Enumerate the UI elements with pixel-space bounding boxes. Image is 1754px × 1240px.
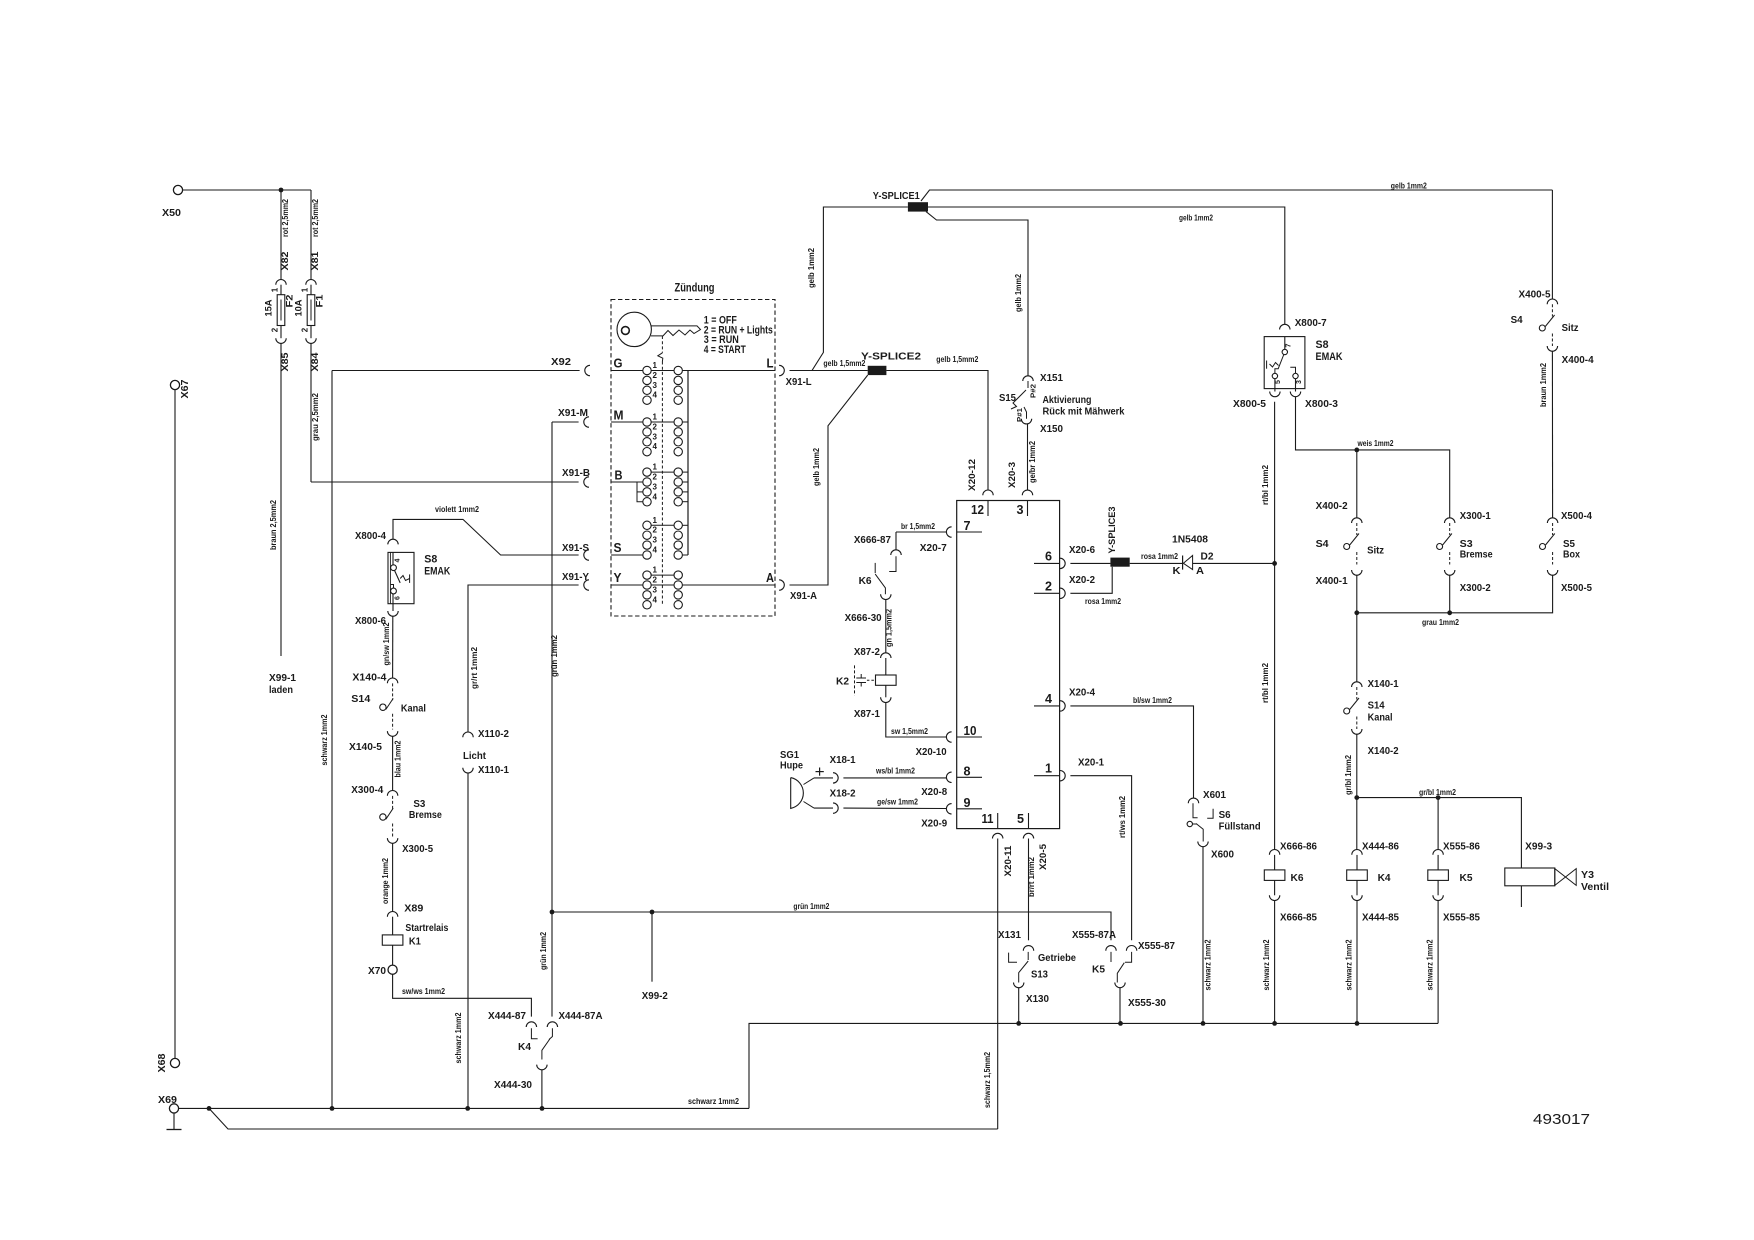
- label X91-S: [562, 543, 589, 554]
- wire splice3 to diode: [1130, 562, 1183, 564]
- label terminal G: [614, 356, 623, 371]
- label EMAK (right): [1316, 351, 1343, 363]
- wire splice2 to X91-A: [790, 375, 868, 585]
- K4 contact bracket right: [549, 1028, 552, 1039]
- svg-text:grau 2,5mm2: grau 2,5mm2: [311, 392, 320, 441]
- connector X500-5: [1547, 570, 1557, 575]
- X20 pin 4 stub: [1034, 691, 1060, 706]
- wire X140-5 to X300-4 (blau): [392, 736, 394, 790]
- ignition key head: [617, 312, 651, 346]
- wire fuse F2 branch upper: [280, 190, 282, 280]
- S8 right pin 5: [1272, 373, 1282, 384]
- svg-text:1N5408: 1N5408: [1172, 535, 1208, 546]
- wire ignition row S: [611, 554, 647, 556]
- ignition key hole: [622, 327, 630, 335]
- label schwarz 1mm2 (Licht drop): [454, 1012, 463, 1063]
- S6 contact bracket: [1207, 809, 1213, 818]
- svg-text:X800-7: X800-7: [1295, 318, 1327, 329]
- label 1N5408: [1172, 535, 1208, 546]
- connector X800-7: [1280, 324, 1290, 329]
- connector X131: [1023, 946, 1033, 951]
- horn SG1: [791, 778, 814, 809]
- svg-text:Y: Y: [614, 570, 622, 585]
- label terminal L: [767, 356, 774, 371]
- wire grau to X140-1: [1356, 613, 1358, 682]
- wire X444-85 to relay bus: [1356, 901, 1358, 1024]
- connector X555-30: [1115, 983, 1125, 988]
- wire X800-5 to K6 coil (rt/bl): [1274, 402, 1276, 850]
- label legend 4=START: [704, 344, 746, 356]
- label Fuellstand: [1219, 822, 1261, 833]
- wire X82 to F2: [280, 285, 282, 295]
- connector X555-86: [1433, 849, 1443, 854]
- svg-text:4: 4: [653, 391, 658, 400]
- svg-text:Rück mit Mähwerk: Rück mit Mähwerk: [1043, 407, 1125, 418]
- label X91-B: [562, 468, 590, 479]
- relay coil K5: [1428, 870, 1449, 881]
- svg-text:X18-2: X18-2: [830, 789, 856, 800]
- label schwarz 1mm2 (K4 coil drop): [1345, 939, 1354, 990]
- connector X20-3: [1022, 490, 1032, 495]
- label schwarz 1mm2 (S6 drop): [1204, 939, 1213, 990]
- wire X91-L to splice2: [790, 370, 868, 372]
- svg-text:X91-L: X91-L: [786, 377, 812, 388]
- label gelb 1mm2 (to S8): [1179, 214, 1213, 223]
- connector X89: [387, 912, 397, 917]
- label X444-87A: [559, 1011, 603, 1022]
- label weis 1mm2: [1357, 439, 1394, 448]
- label X444-87: [488, 1011, 526, 1022]
- switch S8 EMAK (right) box: [1264, 337, 1305, 389]
- svg-text:X91-S: X91-S: [562, 543, 589, 554]
- svg-text:3: 3: [653, 381, 658, 390]
- wire X20-1 to X555-87 (rt/ws): [1070, 776, 1131, 941]
- svg-text:X400-4: X400-4: [1562, 355, 1594, 366]
- relay coil K2: [876, 675, 897, 685]
- svg-text:9: 9: [964, 795, 971, 810]
- svg-text:3: 3: [653, 536, 658, 545]
- wire X91-Y to Licht: [468, 585, 579, 732]
- label Startrelais: [405, 923, 448, 934]
- connector X110-2: [463, 732, 473, 737]
- label rosa 1mm2 (lower): [1085, 597, 1121, 606]
- label sw/ws 1mm2: [402, 987, 445, 996]
- label S15 pin P#1: [1017, 408, 1024, 422]
- label Zuendung: [675, 281, 715, 295]
- label S15: [999, 393, 1016, 404]
- switch S3 Bremse stub lower: [392, 824, 394, 839]
- label schwarz 1mm2 (X92 drop): [320, 714, 329, 765]
- switch S3 Bremse: [380, 808, 394, 820]
- wire K4 coil to X444-85: [1356, 880, 1358, 895]
- label connector X84: [310, 353, 320, 372]
- svg-text:S6: S6: [1219, 810, 1231, 821]
- label terminal S: [614, 540, 622, 555]
- label X666-86: [1280, 842, 1317, 853]
- label S6: [1219, 810, 1231, 821]
- connector X91-M: [584, 417, 589, 427]
- svg-text:4: 4: [395, 558, 402, 562]
- wire X400-1 to grau: [1356, 575, 1358, 613]
- junction on X50 feed: [279, 188, 284, 193]
- wire splice1 top output: [921, 190, 1552, 201]
- junction relay bus K4 coil: [1355, 1021, 1360, 1026]
- svg-text:A: A: [766, 570, 775, 585]
- label grau 2,5mm2: [311, 392, 320, 441]
- svg-text:S5: S5: [1563, 539, 1575, 550]
- svg-text:S14: S14: [1368, 701, 1385, 712]
- connector X800-6: [388, 611, 398, 616]
- junction grau S3: [1447, 610, 1452, 615]
- svg-text:X140-5: X140-5: [349, 742, 382, 753]
- X20 pin 6 stub: [1034, 548, 1060, 563]
- wire gelb to X400-5: [1551, 190, 1553, 299]
- svg-text:5: 5: [1275, 380, 1282, 384]
- X20 pin 9 stub: [957, 795, 982, 810]
- K2 suppressor: [855, 665, 876, 695]
- label X500-4: [1561, 511, 1592, 522]
- wire gr/bl bus: [1357, 798, 1522, 868]
- S8 right pin 7 lead: [1284, 337, 1286, 350]
- label X300-1: [1460, 511, 1491, 522]
- svg-text:schwarz 1mm2: schwarz 1mm2: [454, 1012, 463, 1063]
- wire X666-87 to X20-7: [896, 531, 946, 533]
- svg-text:schwarz 1mm2: schwarz 1mm2: [1204, 939, 1213, 990]
- X20 pin 10 stub: [957, 723, 982, 738]
- label Aktivierung: [1043, 395, 1092, 406]
- label S13: [1031, 970, 1048, 981]
- wire X666-86 to K6 coil: [1274, 855, 1276, 870]
- svg-text:4: 4: [653, 442, 658, 451]
- svg-text:K4: K4: [1378, 873, 1391, 884]
- svg-text:X500-4: X500-4: [1561, 511, 1592, 522]
- svg-text:X500-5: X500-5: [1561, 583, 1592, 594]
- S8 left pin 6 stub: [391, 585, 394, 589]
- label violett 1mm2: [435, 505, 479, 514]
- wire K6 coil to X666-85: [1274, 880, 1276, 895]
- svg-text:P#2: P#2: [1031, 384, 1038, 398]
- wire X50 feed: [183, 189, 311, 191]
- svg-text:G: G: [614, 356, 623, 371]
- svg-text:1: 1: [653, 361, 658, 370]
- S8 left pin 4 lead: [392, 552, 394, 564]
- label gruen 1mm2 (upper): [550, 634, 559, 677]
- wire splice1 to S15: [926, 212, 1028, 376]
- S8 right pin 3: [1293, 373, 1303, 384]
- label F1 pin 2: [301, 327, 310, 332]
- junction gruen left: [550, 910, 555, 915]
- wire X444-30 to bus1: [541, 1070, 543, 1109]
- svg-text:Sitz: Sitz: [1562, 323, 1579, 334]
- wire X87-2 to K2: [885, 658, 887, 675]
- svg-text:X87-1: X87-1: [854, 709, 880, 720]
- label legend 1=OFF: [704, 315, 737, 327]
- label Sitz (top): [1562, 323, 1579, 334]
- wire ignition row B: [611, 481, 647, 483]
- svg-text:11: 11: [982, 811, 994, 826]
- wire ground bus 1: [179, 1107, 749, 1109]
- label SG1: [780, 750, 799, 761]
- label X130: [1026, 994, 1049, 1005]
- svg-text:rt/bl 1mm2: rt/bl 1mm2: [1261, 464, 1270, 505]
- label Hupe: [780, 761, 803, 772]
- label S5: [1563, 539, 1575, 550]
- svg-text:rot 2,5mm2: rot 2,5mm2: [281, 199, 290, 237]
- wire X300-2 to grau: [1449, 575, 1451, 613]
- svg-text:2: 2: [1045, 578, 1052, 593]
- switch K4: [542, 1039, 550, 1060]
- label rt/bl 1mm2 (upper): [1261, 464, 1270, 505]
- S8 left pin 4: [391, 558, 402, 570]
- ignition bus stub B3: [678, 491, 688, 493]
- svg-text:X666-30: X666-30: [845, 613, 882, 624]
- connector X81: [306, 279, 316, 284]
- S8 right pin 7: [1282, 343, 1292, 354]
- svg-text:gr/bl 1mm2: gr/bl 1mm2: [1344, 754, 1353, 795]
- svg-text:X99-1: X99-1: [269, 673, 296, 684]
- label X20-7: [920, 543, 947, 554]
- connector X601: [1188, 798, 1198, 803]
- label connector X85: [280, 353, 290, 372]
- svg-text:br/rt 1mm2: br/rt 1mm2: [1027, 856, 1036, 897]
- label S15 pin P#2: [1031, 384, 1038, 398]
- label X140-4: [352, 672, 386, 683]
- label Rueck mit Maehwerk: [1043, 407, 1125, 418]
- svg-text:gn/sw 1mm2: gn/sw 1mm2: [382, 622, 391, 665]
- label X20-1: [1078, 758, 1104, 769]
- wire X555-85 to relay bus: [1437, 901, 1439, 1024]
- svg-text:X99-3: X99-3: [1525, 842, 1552, 853]
- label ge/sw 1mm2: [877, 798, 918, 807]
- wire X444-86 to K4 coil: [1356, 855, 1358, 870]
- label X300-2: [1460, 583, 1491, 594]
- label sw 1,5mm2: [891, 727, 928, 736]
- wire X18-2 to X20-9 (ge/sw): [843, 807, 946, 809]
- connector X151: [1023, 376, 1033, 381]
- wire X99-2 stub: [651, 912, 653, 982]
- junction bus1-bus2: [207, 1106, 212, 1111]
- svg-text:1: 1: [301, 287, 310, 292]
- connector X150: [1021, 419, 1031, 424]
- switch S5: [1540, 534, 1555, 550]
- label D2: [1201, 552, 1214, 563]
- S4 top stub upper: [1551, 304, 1553, 316]
- label Ventil: [1581, 882, 1609, 893]
- connector X400-1: [1352, 570, 1362, 575]
- svg-text:X444-85: X444-85: [1362, 913, 1399, 924]
- connector X18-2: [833, 803, 838, 813]
- svg-text:Sitz: Sitz: [1367, 546, 1384, 557]
- label X20-11: [1003, 846, 1013, 877]
- label X666-85: [1280, 913, 1317, 924]
- switch S3 (right): [1437, 534, 1452, 550]
- connector X400-2: [1352, 518, 1362, 523]
- S13 contact stub: [1027, 952, 1029, 960]
- svg-text:gelb 1mm2: gelb 1mm2: [807, 247, 816, 288]
- junction diode rt/bl: [1272, 561, 1277, 566]
- svg-text:6: 6: [395, 596, 402, 600]
- label S3 (left): [413, 799, 425, 810]
- svg-text:X555-30: X555-30: [1128, 998, 1166, 1009]
- junction relay bus K5 contact: [1118, 1021, 1123, 1026]
- label X555-87: [1138, 941, 1175, 952]
- wire X20-6 to splice3: [1070, 562, 1110, 564]
- svg-text:X444-86: X444-86: [1362, 842, 1399, 853]
- svg-text:violett 1mm2: violett 1mm2: [435, 505, 479, 514]
- svg-text:rt/ws 1mm2: rt/ws 1mm2: [1118, 795, 1127, 838]
- switch S13: [1019, 961, 1028, 983]
- connector X82: [276, 279, 286, 284]
- svg-text:ge/sw 1mm2: ge/sw 1mm2: [877, 798, 918, 807]
- svg-text:S4: S4: [1511, 315, 1523, 326]
- S4 top stub lower: [1551, 334, 1553, 347]
- junction relay bus S6: [1201, 1021, 1206, 1026]
- junction gruen X99-2: [650, 910, 655, 915]
- terminal X70: [368, 965, 397, 977]
- svg-text:7: 7: [964, 518, 971, 533]
- connector X110-1: [463, 768, 473, 773]
- label Bremse (right): [1460, 550, 1493, 561]
- fuse F1 10A: [307, 295, 315, 326]
- svg-text:493017: 493017: [1533, 1111, 1590, 1128]
- relay coil K4: [1347, 870, 1368, 881]
- svg-text:X91-M: X91-M: [558, 408, 588, 419]
- connector X20-2: [1060, 588, 1065, 598]
- switch S4 (middle): [1344, 534, 1359, 550]
- svg-text:EMAK: EMAK: [1316, 351, 1343, 363]
- svg-text:X150: X150: [1040, 424, 1063, 435]
- svg-text:4: 4: [653, 492, 658, 501]
- svg-text:schwarz 1mm2: schwarz 1mm2: [1345, 939, 1354, 990]
- svg-text:12: 12: [971, 502, 984, 517]
- svg-text:F1: F1: [315, 295, 325, 308]
- svg-text:ws/bl 1mm2: ws/bl 1mm2: [875, 767, 915, 776]
- S8 right pin5 lead: [1274, 379, 1276, 392]
- svg-text:K5: K5: [1460, 873, 1473, 884]
- connector X400-4: [1547, 346, 1557, 351]
- svg-text:X400-1: X400-1: [1316, 576, 1348, 587]
- svg-text:braun 1mm2: braun 1mm2: [1539, 362, 1548, 407]
- svg-text:X68: X68: [157, 1053, 168, 1072]
- junction bus1 X92 ground: [330, 1106, 335, 1111]
- svg-text:X444-87: X444-87: [488, 1011, 526, 1022]
- wire X91-B: [311, 481, 579, 483]
- svg-text:X20-3: X20-3: [1007, 462, 1017, 488]
- wire X400-4 to X500-4 (braun): [1551, 351, 1553, 518]
- connector X666-87: [891, 550, 901, 555]
- svg-text:bl/sw 1mm2: bl/sw 1mm2: [1133, 696, 1172, 705]
- svg-text:X151: X151: [1040, 373, 1063, 384]
- connector X600: [1198, 842, 1208, 847]
- ignition contact circles: [643, 361, 683, 609]
- svg-text:grau 1mm2: grau 1mm2: [1422, 618, 1459, 627]
- svg-text:10A: 10A: [294, 299, 304, 317]
- svg-text:4: 4: [1045, 691, 1053, 706]
- svg-text:X82: X82: [280, 252, 290, 271]
- svg-text:schwarz 1,5mm2: schwarz 1,5mm2: [983, 1052, 992, 1108]
- svg-text:2: 2: [271, 327, 280, 332]
- svg-text:braun 2,5mm2: braun 2,5mm2: [269, 499, 278, 550]
- wire X666-85 to relay bus: [1274, 901, 1276, 1024]
- label Y-SPLICE2: [861, 352, 921, 363]
- label X400-1: [1316, 576, 1348, 587]
- wire X800-3 weis net: [1296, 397, 1450, 518]
- label X99-2: [642, 991, 668, 1002]
- S8 left pin 6 lead: [392, 594, 394, 611]
- svg-text:3: 3: [653, 585, 658, 594]
- terminal X69: [158, 1095, 179, 1113]
- connector X20-10: [946, 732, 951, 742]
- label gn/sw 1mm2 (S14 feed): [382, 622, 391, 665]
- label K6 (coil): [1291, 873, 1304, 884]
- label Sitz (middle): [1367, 546, 1384, 557]
- wire gruen X91-M drop: [551, 422, 553, 912]
- wire X85 down (braun): [280, 343, 282, 656]
- switch S14 Kanal stub lower: [392, 714, 394, 730]
- svg-text:S13: S13: [1031, 970, 1048, 981]
- label br 1,5mm2: [901, 522, 935, 531]
- svg-text:X444-30: X444-30: [494, 1080, 532, 1091]
- label terminal M: [614, 408, 624, 423]
- S4 middle stub lower: [1356, 552, 1358, 565]
- svg-text:K6: K6: [1291, 873, 1304, 884]
- svg-text:X666-86: X666-86: [1280, 842, 1317, 853]
- label X601: [1203, 790, 1226, 801]
- diode D2: [1183, 556, 1193, 570]
- svg-text:S14: S14: [351, 694, 370, 705]
- label F2 pin 2: [271, 327, 280, 332]
- svg-text:D2: D2: [1201, 552, 1214, 563]
- connector X300-4: [387, 791, 397, 796]
- relay coil K1: [382, 935, 403, 945]
- horn plus sign: [816, 768, 824, 776]
- S8 right pin3 lead: [1295, 379, 1297, 392]
- ignition bus stub S4: [678, 554, 688, 556]
- label schwarz 1mm2 (K5 coil drop): [1426, 939, 1435, 990]
- label Kanal (right): [1368, 713, 1393, 724]
- svg-text:X18-1: X18-1: [830, 755, 856, 766]
- wire X666-30 to X87-2 (gn): [885, 600, 887, 653]
- svg-text:15A: 15A: [264, 299, 274, 317]
- svg-text:4: 4: [653, 546, 658, 555]
- switch S14 Kanal: [380, 698, 394, 710]
- wire ignition row S1 link: [647, 524, 678, 526]
- connector X20-4: [1060, 701, 1065, 711]
- svg-text:Getriebe: Getriebe: [1038, 953, 1076, 964]
- label 15A: [264, 299, 274, 317]
- svg-text:X20-8: X20-8: [921, 787, 947, 798]
- X20 pin 11 stub: [982, 811, 998, 829]
- connector X140-5: [387, 731, 397, 736]
- terminal X67: [170, 379, 191, 398]
- svg-text:X20-5: X20-5: [1038, 844, 1048, 870]
- junction relay bus S13: [1016, 1021, 1021, 1026]
- label X20-4: [1069, 688, 1095, 699]
- connector X130: [1014, 983, 1024, 988]
- label Y-SPLICE1: [873, 191, 920, 202]
- label X800-3: [1305, 399, 1338, 410]
- svg-text:K1: K1: [409, 937, 421, 948]
- label X555-86: [1443, 842, 1480, 853]
- label Box: [1563, 550, 1580, 561]
- S8 left pin 6: [391, 588, 402, 600]
- svg-text:Bremse: Bremse: [409, 810, 442, 821]
- label schwarz 1,5mm2 (pin11 riser): [983, 1052, 992, 1108]
- label terminal B: [615, 468, 623, 483]
- svg-text:gelb 1,5mm2: gelb 1,5mm2: [936, 355, 978, 364]
- svg-text:A: A: [1196, 566, 1204, 577]
- wire ignition row G-L: [611, 370, 775, 372]
